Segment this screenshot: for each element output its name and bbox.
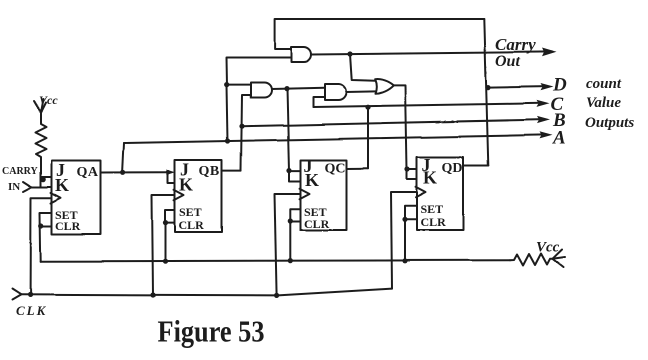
svg-text:Out: Out — [495, 53, 520, 70]
wire: CLK rise to U3 — [275, 194, 300, 296]
svg-text:CLK: CLK — [16, 303, 47, 318]
svg-text:QC: QC — [325, 162, 346, 177]
svg-text:Vcc: Vcc — [536, 240, 560, 256]
clock triangle U4 — [416, 187, 426, 197]
resistor R2 horizontal zigzag — [510, 254, 553, 266]
OR gate G4 — [375, 79, 394, 94]
wire: U2 SET/CLR bracket — [166, 210, 176, 261]
wire: SET/CLR rail — [41, 260, 510, 261]
svg-text:SET: SET — [421, 202, 444, 216]
wire: G4 output to U4 J — [394, 85, 407, 169]
wire: resistor R1 to U1 J node — [40, 158, 42, 187]
wire: output line B — [242, 120, 543, 127]
flip-flop U2 box — [175, 160, 222, 232]
svg-text:Figure 53: Figure 53 — [158, 314, 265, 349]
svg-text:CLR: CLR — [179, 218, 205, 232]
wire: QD output — [464, 165, 489, 167]
AND gate G2 — [251, 83, 272, 98]
wire: G2 bottom input from QB vertical — [241, 95, 251, 171]
wire: output line A — [124, 135, 545, 143]
wire: G2 top input — [227, 84, 251, 86]
wire: U1 SET/CLR bracket — [40, 213, 52, 262]
svg-text:D: D — [552, 75, 567, 96]
svg-text:K: K — [55, 175, 69, 195]
wire: QC output — [347, 167, 369, 169]
svg-text:count: count — [586, 76, 622, 92]
power VCC right symbol — [553, 250, 564, 268]
wire: U1 K entry — [41, 186, 52, 188]
AND gate G3 — [325, 84, 347, 100]
wire: U3 SET/CLR bracket — [290, 209, 300, 261]
wire: CLK rise to U2 — [152, 195, 174, 295]
wire: vertical G2 out to U3 J — [287, 89, 289, 171]
resistor R1 vertical zigzag — [36, 122, 47, 158]
svg-text:K: K — [179, 175, 193, 195]
wire: G4 top input from carry line — [350, 54, 376, 81]
wire: CLK rise to U1 — [31, 198, 51, 295]
wire: G2 output to G3 top input — [272, 88, 325, 89]
svg-text:Vcc: Vcc — [39, 93, 58, 107]
wire: U4 J entry — [407, 168, 417, 170]
arrowhead carry out — [542, 48, 557, 57]
wire: U2 J/K bracket — [168, 172, 175, 183]
arrowhead into U2 J — [166, 170, 175, 176]
wire: CLK line — [21, 289, 392, 296]
wire: U3 J/K bracket — [289, 171, 301, 181]
clock input connector — [12, 289, 21, 300]
wire: output line D — [488, 87, 546, 88]
svg-text:Value: Value — [586, 95, 621, 111]
arrowhead C — [537, 100, 550, 107]
wire: U4 J/K bracket — [407, 169, 417, 179]
flip-flop U4 box — [417, 157, 464, 230]
svg-text:CLR: CLR — [421, 215, 447, 229]
wire: G3 output to G4 — [346, 90, 376, 93]
svg-text:SET: SET — [179, 205, 202, 219]
svg-text:QB: QB — [199, 164, 220, 179]
svg-text:CLR: CLR — [304, 217, 330, 231]
svg-text:CLR: CLR — [55, 219, 81, 233]
clock triangle U2 — [174, 190, 184, 200]
wire: QC vertical — [367, 107, 369, 168]
carry in connector — [23, 182, 32, 192]
power VCC left symbol — [34, 101, 46, 113]
svg-text:K: K — [305, 170, 319, 190]
AND gate G1 — [291, 47, 311, 62]
svg-text:Outputs: Outputs — [585, 115, 634, 131]
wire: U4 SET/CLR bracket — [405, 206, 417, 261]
svg-text:K: K — [423, 168, 437, 188]
clock triangle U3 — [300, 188, 310, 198]
wire: top feedback line — [275, 19, 485, 49]
arrowhead A — [540, 131, 553, 138]
flip-flop U1 box — [52, 161, 101, 235]
svg-text:QA: QA — [77, 165, 99, 180]
flip-flop U3 box — [301, 160, 347, 230]
wire: QB output — [222, 170, 241, 172]
wire: QA vertical to line A — [123, 143, 124, 172]
wire: Vcc to resistor R1 — [40, 113, 42, 123]
wire: output line C — [313, 103, 542, 107]
arrowhead B — [537, 116, 550, 123]
wire: G3 bottom input step — [313, 97, 325, 107]
arrowhead D — [541, 83, 554, 90]
wire: CLK rise to U4 — [391, 192, 417, 289]
clock triangle U1 — [51, 193, 61, 204]
svg-text:Carry: Carry — [495, 35, 536, 54]
wire: G1 bottom input from QA vertical — [226, 58, 291, 142]
svg-text:CARRY: CARRY — [2, 166, 39, 177]
wire: QA output to U2 J — [101, 171, 168, 173]
wire: U1 J entry — [41, 176, 52, 178]
junction dots — [225, 138, 230, 143]
wire: carry out line from G1 — [311, 52, 552, 55]
svg-text:A: A — [552, 128, 566, 149]
wire: U3 J entry — [289, 170, 301, 172]
svg-text:QD: QD — [442, 161, 463, 176]
svg-text:IN: IN — [8, 181, 20, 193]
wire: QD vertical up to top line — [484, 19, 488, 166]
